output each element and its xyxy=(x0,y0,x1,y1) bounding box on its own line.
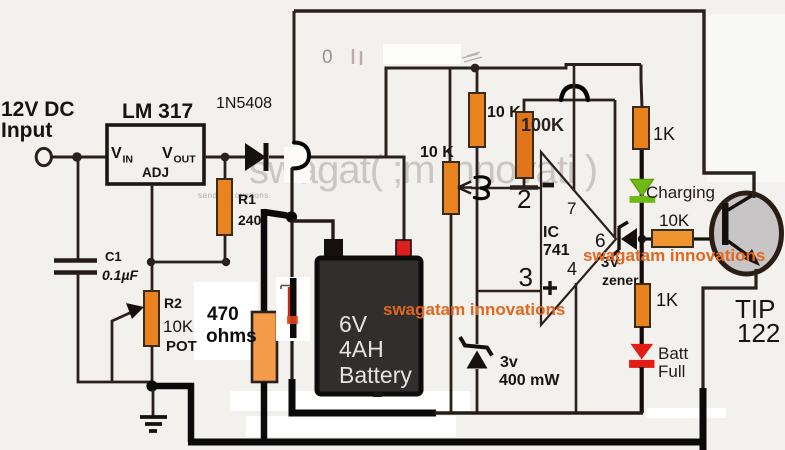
resistor R1 240 xyxy=(217,179,232,235)
wiper arrow R2 xyxy=(112,311,134,382)
svg-text:122: 122 xyxy=(737,318,780,348)
white wash top right xyxy=(707,14,785,182)
wire emitter down xyxy=(703,269,756,395)
wire C1 bottom to ground node xyxy=(78,273,152,382)
svg-text:Batt: Batt xyxy=(658,344,689,363)
wire 10K down through hop to pin3 and zener xyxy=(476,147,479,344)
svg-text:IN: IN xyxy=(123,154,134,166)
svg-text:10 K: 10 K xyxy=(420,144,454,161)
svg-text:LM 317: LM 317 xyxy=(122,100,193,123)
lm317 U1 xyxy=(107,125,204,184)
wire diode to corner xyxy=(269,156,386,159)
svg-text:Battery: Battery xyxy=(339,362,412,388)
wire junction to battery minus xyxy=(291,221,333,240)
svg-text:10K: 10K xyxy=(163,317,194,336)
svg-text:741: 741 xyxy=(543,242,570,259)
svg-text:OUT: OUT xyxy=(174,154,197,166)
wire thick battery minus riser xyxy=(292,379,436,413)
svg-text:1N5408: 1N5408 xyxy=(216,95,272,112)
wire thick ground to bottom rail xyxy=(155,386,191,442)
white patch top xyxy=(383,44,461,64)
svg-text:sand am ovations: sand am ovations xyxy=(198,191,269,200)
wire collector to top rail xyxy=(294,11,754,198)
hop hand-drawn over vout wire xyxy=(293,143,309,169)
zener 3v 400mW xyxy=(460,337,492,356)
white patch 470 label xyxy=(194,282,258,360)
svg-text:2: 2 xyxy=(517,184,531,214)
wire R2 bottom xyxy=(151,346,154,390)
svg-text:4: 4 xyxy=(567,259,577,279)
artifact pink strokes xyxy=(353,49,361,65)
resistor 470 ohms xyxy=(252,312,277,382)
svg-text:R1: R1 xyxy=(238,191,256,207)
potentiometer R2 10K xyxy=(151,290,154,293)
svg-text:IC: IC xyxy=(543,224,559,241)
svg-text:100K: 100K xyxy=(521,115,564,135)
white patch over wire near hop xyxy=(284,147,310,183)
wire output column xyxy=(640,149,644,284)
wire corner to battery plus xyxy=(386,157,404,240)
wire to red led xyxy=(640,327,644,344)
svg-text:V: V xyxy=(111,145,122,162)
svg-text:Input: Input xyxy=(1,119,52,142)
node output junction xyxy=(638,235,646,243)
wire riser to supply rail xyxy=(386,65,641,158)
svg-text:swagatam innovations: swagatam innovations xyxy=(583,246,765,265)
node rail junction xyxy=(471,64,480,73)
wire feedback down to pin6 xyxy=(614,100,617,238)
node R1 bottom junction xyxy=(222,258,230,266)
svg-text:1K: 1K xyxy=(653,124,675,144)
svg-text:6V: 6V xyxy=(339,311,368,337)
diode D1 1N5408 xyxy=(245,143,266,171)
resistor 10K first xyxy=(476,68,479,93)
LED batt full red xyxy=(631,344,654,360)
LED charging green xyxy=(631,179,654,196)
white patch right of batt full xyxy=(646,408,726,418)
artifact scribbles xyxy=(462,52,482,62)
svg-text:Full: Full xyxy=(658,362,685,381)
wire pin7 supply xyxy=(573,65,576,192)
resistor 1K bottom xyxy=(635,284,650,327)
svg-text:zener: zener xyxy=(602,272,639,288)
svg-text:swagatam innovations: swagatam innovations xyxy=(383,300,565,319)
capacitor C1 xyxy=(54,261,97,273)
svg-text:R2: R2 xyxy=(164,295,182,311)
svg-text:3: 3 xyxy=(519,262,533,292)
white patch under battery xyxy=(230,391,470,411)
wire adj to R1 bottom xyxy=(151,261,226,264)
marker red strokes xyxy=(288,287,290,323)
node ground junction xyxy=(146,380,157,391)
wire pin3 xyxy=(477,290,541,293)
transistor Q1 TIP122 xyxy=(712,193,782,274)
resistor 1K top xyxy=(641,65,642,108)
wire pin2 from wiper xyxy=(471,187,541,190)
svg-text:12V DC: 12V DC xyxy=(1,98,75,121)
node junction Vin xyxy=(72,152,82,162)
resistor 10K preset xyxy=(449,68,452,162)
svg-text:10K: 10K xyxy=(659,211,690,230)
wire input to LM317 xyxy=(50,156,107,159)
svg-text:0.1µF: 0.1µF xyxy=(102,267,139,283)
svg-text:240: 240 xyxy=(238,212,262,228)
white patch around marker bar xyxy=(276,277,310,341)
svg-text:C1: C1 xyxy=(105,249,122,264)
resistor 10K base xyxy=(646,237,722,240)
zener output 3V at pin6 xyxy=(612,222,628,256)
battery B1 6V 4AH xyxy=(324,239,343,258)
wire red led to rail xyxy=(640,367,644,413)
wire left drop from top rail xyxy=(293,11,296,143)
hop hand-drawn on feedback wire xyxy=(561,86,588,100)
wiper arrowhead xyxy=(458,182,472,194)
svg-text:0: 0 xyxy=(322,47,333,68)
op-amp U2 IC741 xyxy=(541,152,616,325)
svg-text:470: 470 xyxy=(207,304,239,325)
ground xyxy=(152,390,155,417)
wire left column down to C1 xyxy=(77,157,80,259)
marker tick xyxy=(281,286,290,290)
wire thick 470 top xyxy=(264,212,287,216)
hop hand-drawn C on pin2 wire xyxy=(475,177,490,199)
resistor 100K xyxy=(516,112,533,178)
wire R1 top lead xyxy=(224,157,227,262)
wire Vout to diode xyxy=(204,156,246,159)
node adj junction xyxy=(147,258,155,266)
svg-text:V: V xyxy=(162,145,173,162)
node vout junction xyxy=(221,153,230,162)
svg-text:400 mW: 400 mW xyxy=(499,372,560,389)
node battery minus junction xyxy=(286,211,297,222)
svg-text:Charging: Charging xyxy=(646,183,715,202)
node input terminal xyxy=(36,148,51,165)
marker black bar xyxy=(290,278,297,338)
wire ADJ down xyxy=(151,184,154,291)
wire rail 413 xyxy=(434,411,643,415)
svg-text:4AH: 4AH xyxy=(339,336,384,362)
svg-text:ohms: ohms xyxy=(206,326,257,347)
svg-text:POT: POT xyxy=(166,338,197,355)
wire pin4 ground xyxy=(575,283,578,413)
svg-text:3v: 3v xyxy=(500,354,518,371)
svg-text:7: 7 xyxy=(567,199,576,218)
svg-text:ADJ: ADJ xyxy=(142,165,169,180)
svg-text:1K: 1K xyxy=(656,290,678,310)
wire bottom rail xyxy=(188,388,703,450)
